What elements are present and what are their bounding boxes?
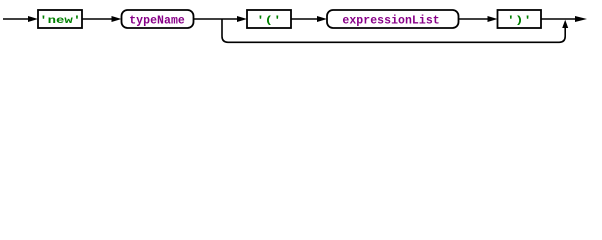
terminal box ')' xyxy=(498,10,542,28)
svg-text:'new': 'new' xyxy=(39,14,81,26)
arrow up rejoining main line xyxy=(562,20,568,28)
nonterminal box expressionList xyxy=(327,10,459,28)
terminal box 'new' xyxy=(38,10,82,28)
terminal box '(' xyxy=(247,10,291,28)
wire: 'new' to typeName xyxy=(82,18,114,20)
railroad diagram: 'new' typeName ( '(' expressionList ')' )? xyxy=(0,0,602,63)
arrow into '(' xyxy=(237,16,247,22)
wire: start line xyxy=(3,18,30,20)
arrow into 'new' xyxy=(28,16,38,22)
wire: typeName to '(' with optional-branch junction xyxy=(194,18,240,20)
svg-text:'(': '(' xyxy=(256,14,281,26)
nonterminal box typeName xyxy=(122,10,194,28)
svg-text:expressionList: expressionList xyxy=(342,14,439,27)
wire: ')' to end xyxy=(541,18,578,20)
wire: expressionList to ')' xyxy=(459,18,491,20)
wire: optional bypass loop xyxy=(222,19,565,42)
arrow into expressionList xyxy=(317,16,327,22)
arrow at end xyxy=(575,16,587,22)
svg-text:typeName: typeName xyxy=(129,14,185,27)
arrow into typeName xyxy=(112,16,122,22)
arrow into ')' xyxy=(488,16,498,22)
svg-text:')': ')' xyxy=(507,14,532,26)
wire: '(' to expressionList xyxy=(291,18,319,20)
